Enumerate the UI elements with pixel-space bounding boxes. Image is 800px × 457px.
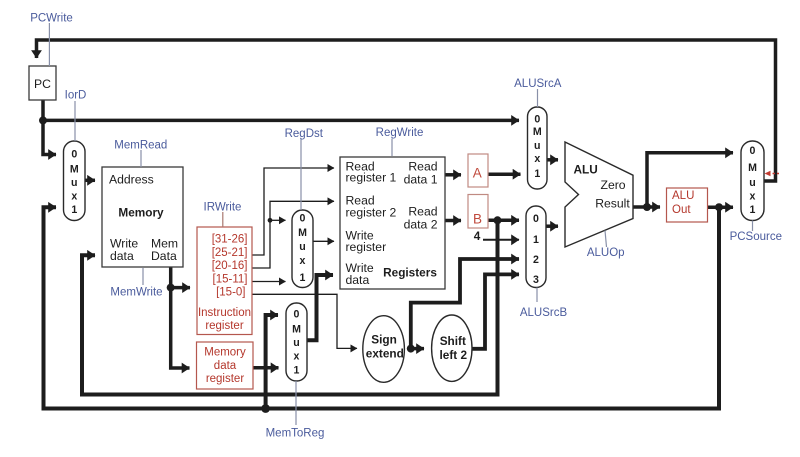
- svg-text:Instruction: Instruction: [198, 307, 251, 319]
- wire ALU Result up to PCSource mux input 0: [647, 153, 733, 207]
- svg-text:[20-16]: [20-16]: [212, 260, 248, 272]
- mux MemToReg letters: [292, 309, 301, 377]
- wire PCSource mux output to top rail into PC: [37, 40, 776, 181]
- svg-text:u: u: [534, 140, 540, 152]
- svg-text:MemRead: MemRead: [114, 140, 167, 152]
- junction rail to MemToReg branch: [261, 404, 270, 413]
- IorD line: [74, 101, 76, 141]
- svg-text:u: u: [299, 241, 305, 253]
- wire IorD mux output to Memory Address: [85, 179, 95, 183]
- svg-text:0: 0: [533, 213, 539, 225]
- instruction register field texts: [198, 234, 251, 333]
- svg-text:data: data: [214, 360, 237, 372]
- svg-text:A: A: [473, 165, 482, 180]
- mux RegDst letters: [298, 213, 307, 285]
- mux MemToReg: [286, 303, 307, 381]
- svg-text:0: 0: [71, 148, 77, 160]
- svg-text:x: x: [300, 255, 306, 267]
- instruction register box: [197, 227, 252, 335]
- svg-text:M: M: [70, 163, 79, 175]
- svg-text:1: 1: [300, 272, 306, 284]
- wire ALUOut rail bottom to IorD mux input 1: [44, 207, 720, 408]
- jump address dashed hint: [765, 171, 780, 177]
- svg-text:1: 1: [71, 204, 77, 216]
- svg-text:ALUSrcB: ALUSrcB: [520, 307, 568, 319]
- wire Memory Mem Data down to Instruction register: [171, 265, 190, 288]
- svg-text:[15-0]: [15-0]: [216, 287, 245, 299]
- junction IR 20-16 branch: [268, 218, 273, 223]
- wire IR 15-0 to Sign extend: [252, 294, 357, 348]
- wire rail to MemToReg mux input 0: [266, 315, 278, 409]
- svg-text:MemWrite: MemWrite: [110, 287, 162, 299]
- svg-text:Sign: Sign: [371, 333, 397, 347]
- svg-text:u: u: [71, 177, 77, 189]
- svg-text:3: 3: [533, 274, 539, 286]
- svg-text:data: data: [110, 249, 134, 263]
- sign extend text: [366, 333, 404, 361]
- junction Mem Data branch: [167, 284, 175, 292]
- svg-text:Shift: Shift: [440, 334, 466, 348]
- wire ALUSrcB mux output to ALU: [546, 224, 558, 228]
- MemWrite line: [142, 268, 144, 285]
- MemRead line: [140, 150, 142, 167]
- IRWrite line: [222, 212, 224, 227]
- ALU Out register box: [667, 188, 708, 222]
- svg-text:Address: Address: [109, 173, 154, 187]
- registers unit: [340, 157, 445, 289]
- svg-text:1: 1: [534, 168, 540, 180]
- mux ALUSrcA: [528, 107, 548, 189]
- svg-text:register 1: register 1: [346, 171, 397, 185]
- svg-text:x: x: [294, 351, 300, 363]
- mux ALUSrcB: [526, 206, 546, 288]
- svg-text:B: B: [473, 212, 482, 227]
- memory data register texts: [204, 347, 246, 386]
- svg-text:M: M: [292, 324, 301, 336]
- wire ALU Result to ALU Out: [633, 205, 660, 209]
- svg-text:Read: Read: [408, 205, 437, 219]
- mux PCSource letters: [748, 145, 757, 216]
- ALUSrcB line: [536, 288, 538, 303]
- wire Read data 1 to A: [445, 173, 461, 177]
- wire B register to Memory Write data: [82, 220, 498, 394]
- oval sign extend: [363, 316, 405, 383]
- memory unit: [102, 167, 183, 267]
- svg-text:0: 0: [294, 309, 300, 321]
- svg-text:0: 0: [750, 145, 756, 157]
- svg-text:register: register: [206, 373, 245, 385]
- svg-text:x: x: [750, 191, 756, 203]
- wire Mem Data to Memory data register: [171, 288, 190, 368]
- svg-text:extend: extend: [366, 346, 404, 360]
- memory data register box: [197, 342, 254, 389]
- svg-text:1: 1: [533, 234, 539, 246]
- svg-text:ALUSrcA: ALUSrcA: [514, 78, 562, 90]
- wire B to ALUSrcB mux input 0: [488, 219, 519, 223]
- wire MDR output to MemToReg mux input 1: [253, 366, 279, 370]
- wire Shift left 2 output to ALUSrcB mux input 3: [472, 274, 520, 348]
- svg-text:register: register: [205, 320, 244, 332]
- svg-text:0: 0: [534, 113, 540, 125]
- svg-text:4: 4: [474, 229, 481, 243]
- mux ALUSrcA letters: [533, 113, 542, 180]
- svg-text:u: u: [293, 337, 299, 349]
- PCSource line: [752, 221, 754, 232]
- register A: [468, 154, 488, 187]
- junction PC branch: [39, 116, 47, 124]
- svg-text:IRWrite: IRWrite: [204, 202, 242, 214]
- MemToReg line: [295, 381, 297, 425]
- svg-text:left 2: left 2: [440, 348, 468, 362]
- mux IorD: [64, 141, 86, 221]
- shift left 2 text: [440, 334, 468, 362]
- svg-text:0: 0: [300, 213, 306, 225]
- svg-text:[15-11]: [15-11]: [213, 273, 248, 285]
- wire Sign extend output up to ALUSrcB mux input 2: [411, 259, 519, 349]
- svg-text:data: data: [346, 273, 370, 287]
- svg-text:RegDst: RegDst: [285, 128, 324, 140]
- wire constant 4 to ALUSrcB mux input 1: [483, 239, 519, 241]
- svg-text:data 2: data 2: [404, 218, 438, 232]
- register B: [468, 195, 488, 229]
- svg-text:Memory: Memory: [118, 205, 164, 219]
- svg-text:Memory: Memory: [204, 347, 246, 359]
- mux RegDst: [292, 210, 313, 288]
- RegDst line: [300, 139, 302, 211]
- svg-text:M: M: [748, 162, 757, 174]
- wire IR 20-16 branch to RegDst mux input 0: [270, 219, 286, 221]
- wire MemToReg mux output to Registers Write data: [307, 275, 334, 340]
- wire PC output down: [43, 100, 56, 155]
- oval shift left 2: [432, 315, 472, 381]
- mux PCSource: [741, 141, 764, 221]
- wire Sign extend to Shift left 2: [411, 347, 424, 351]
- junction B output branch: [494, 216, 502, 224]
- mux IorD letters: [70, 148, 79, 216]
- wire IR 15-11 to RegDst mux input 1: [252, 281, 286, 283]
- wire ALU Out output to PCSource mux input 1: [707, 205, 733, 209]
- junction ALU result branch: [643, 203, 651, 211]
- svg-text:data 1: data 1: [404, 173, 438, 187]
- svg-text:PCSource: PCSource: [730, 231, 782, 243]
- svg-text:ALU: ALU: [672, 190, 694, 202]
- svg-text:[31-26]: [31-26]: [212, 234, 248, 246]
- svg-text:Out: Out: [672, 204, 691, 216]
- svg-text:PC: PC: [34, 77, 51, 91]
- wire RegDst mux output to Write register: [313, 240, 334, 242]
- RegWrite line: [391, 139, 393, 157]
- ALUOp line: [605, 231, 607, 248]
- memory texts: [109, 173, 178, 264]
- svg-text:ALU: ALU: [574, 162, 598, 176]
- wire A to ALUSrcA mux input 1: [488, 172, 521, 176]
- ALU Out texts: [672, 190, 694, 216]
- svg-text:x: x: [534, 153, 540, 165]
- ALU shape: [565, 142, 633, 247]
- svg-text:Zero: Zero: [601, 178, 626, 192]
- svg-text:ALUOp: ALUOp: [587, 247, 625, 259]
- wire ALUSrcA mux output to ALU: [547, 158, 558, 162]
- svg-text:1: 1: [750, 204, 756, 216]
- wire Read data 2 to B: [445, 219, 461, 223]
- svg-text:M: M: [298, 227, 307, 239]
- svg-text:Registers: Registers: [383, 265, 437, 279]
- svg-text:1: 1: [294, 365, 300, 377]
- svg-text:PCWrite: PCWrite: [30, 13, 73, 25]
- ALUSrcA line: [537, 89, 539, 107]
- mux ALUSrcB digits: [533, 213, 539, 286]
- svg-text:u: u: [749, 177, 755, 189]
- svg-text:Result: Result: [595, 197, 630, 211]
- junction Sign extend branch: [407, 345, 415, 353]
- svg-text:register 2: register 2: [346, 206, 397, 220]
- junction ALU Out branch: [715, 203, 723, 211]
- control label connector lines: [49, 23, 752, 425]
- register PC: [29, 66, 56, 100]
- wire IR 25-21 to Read register 1: [252, 168, 334, 255]
- svg-text:IorD: IorD: [65, 90, 87, 102]
- registers texts: [346, 160, 438, 287]
- svg-text:register: register: [346, 240, 387, 254]
- svg-text:Data: Data: [151, 249, 177, 263]
- PCWrite line: [48, 23, 50, 66]
- svg-text:RegWrite: RegWrite: [376, 127, 424, 139]
- wire PC to ALUSrcA mux input 0: [43, 119, 519, 123]
- svg-text:x: x: [71, 190, 77, 202]
- svg-text:M: M: [533, 126, 542, 138]
- svg-text:2: 2: [533, 254, 539, 266]
- svg-text:MemToReg: MemToReg: [266, 428, 325, 440]
- wire IR 20-16 to Read register 2: [252, 201, 334, 268]
- svg-text:[25-21]: [25-21]: [212, 247, 248, 259]
